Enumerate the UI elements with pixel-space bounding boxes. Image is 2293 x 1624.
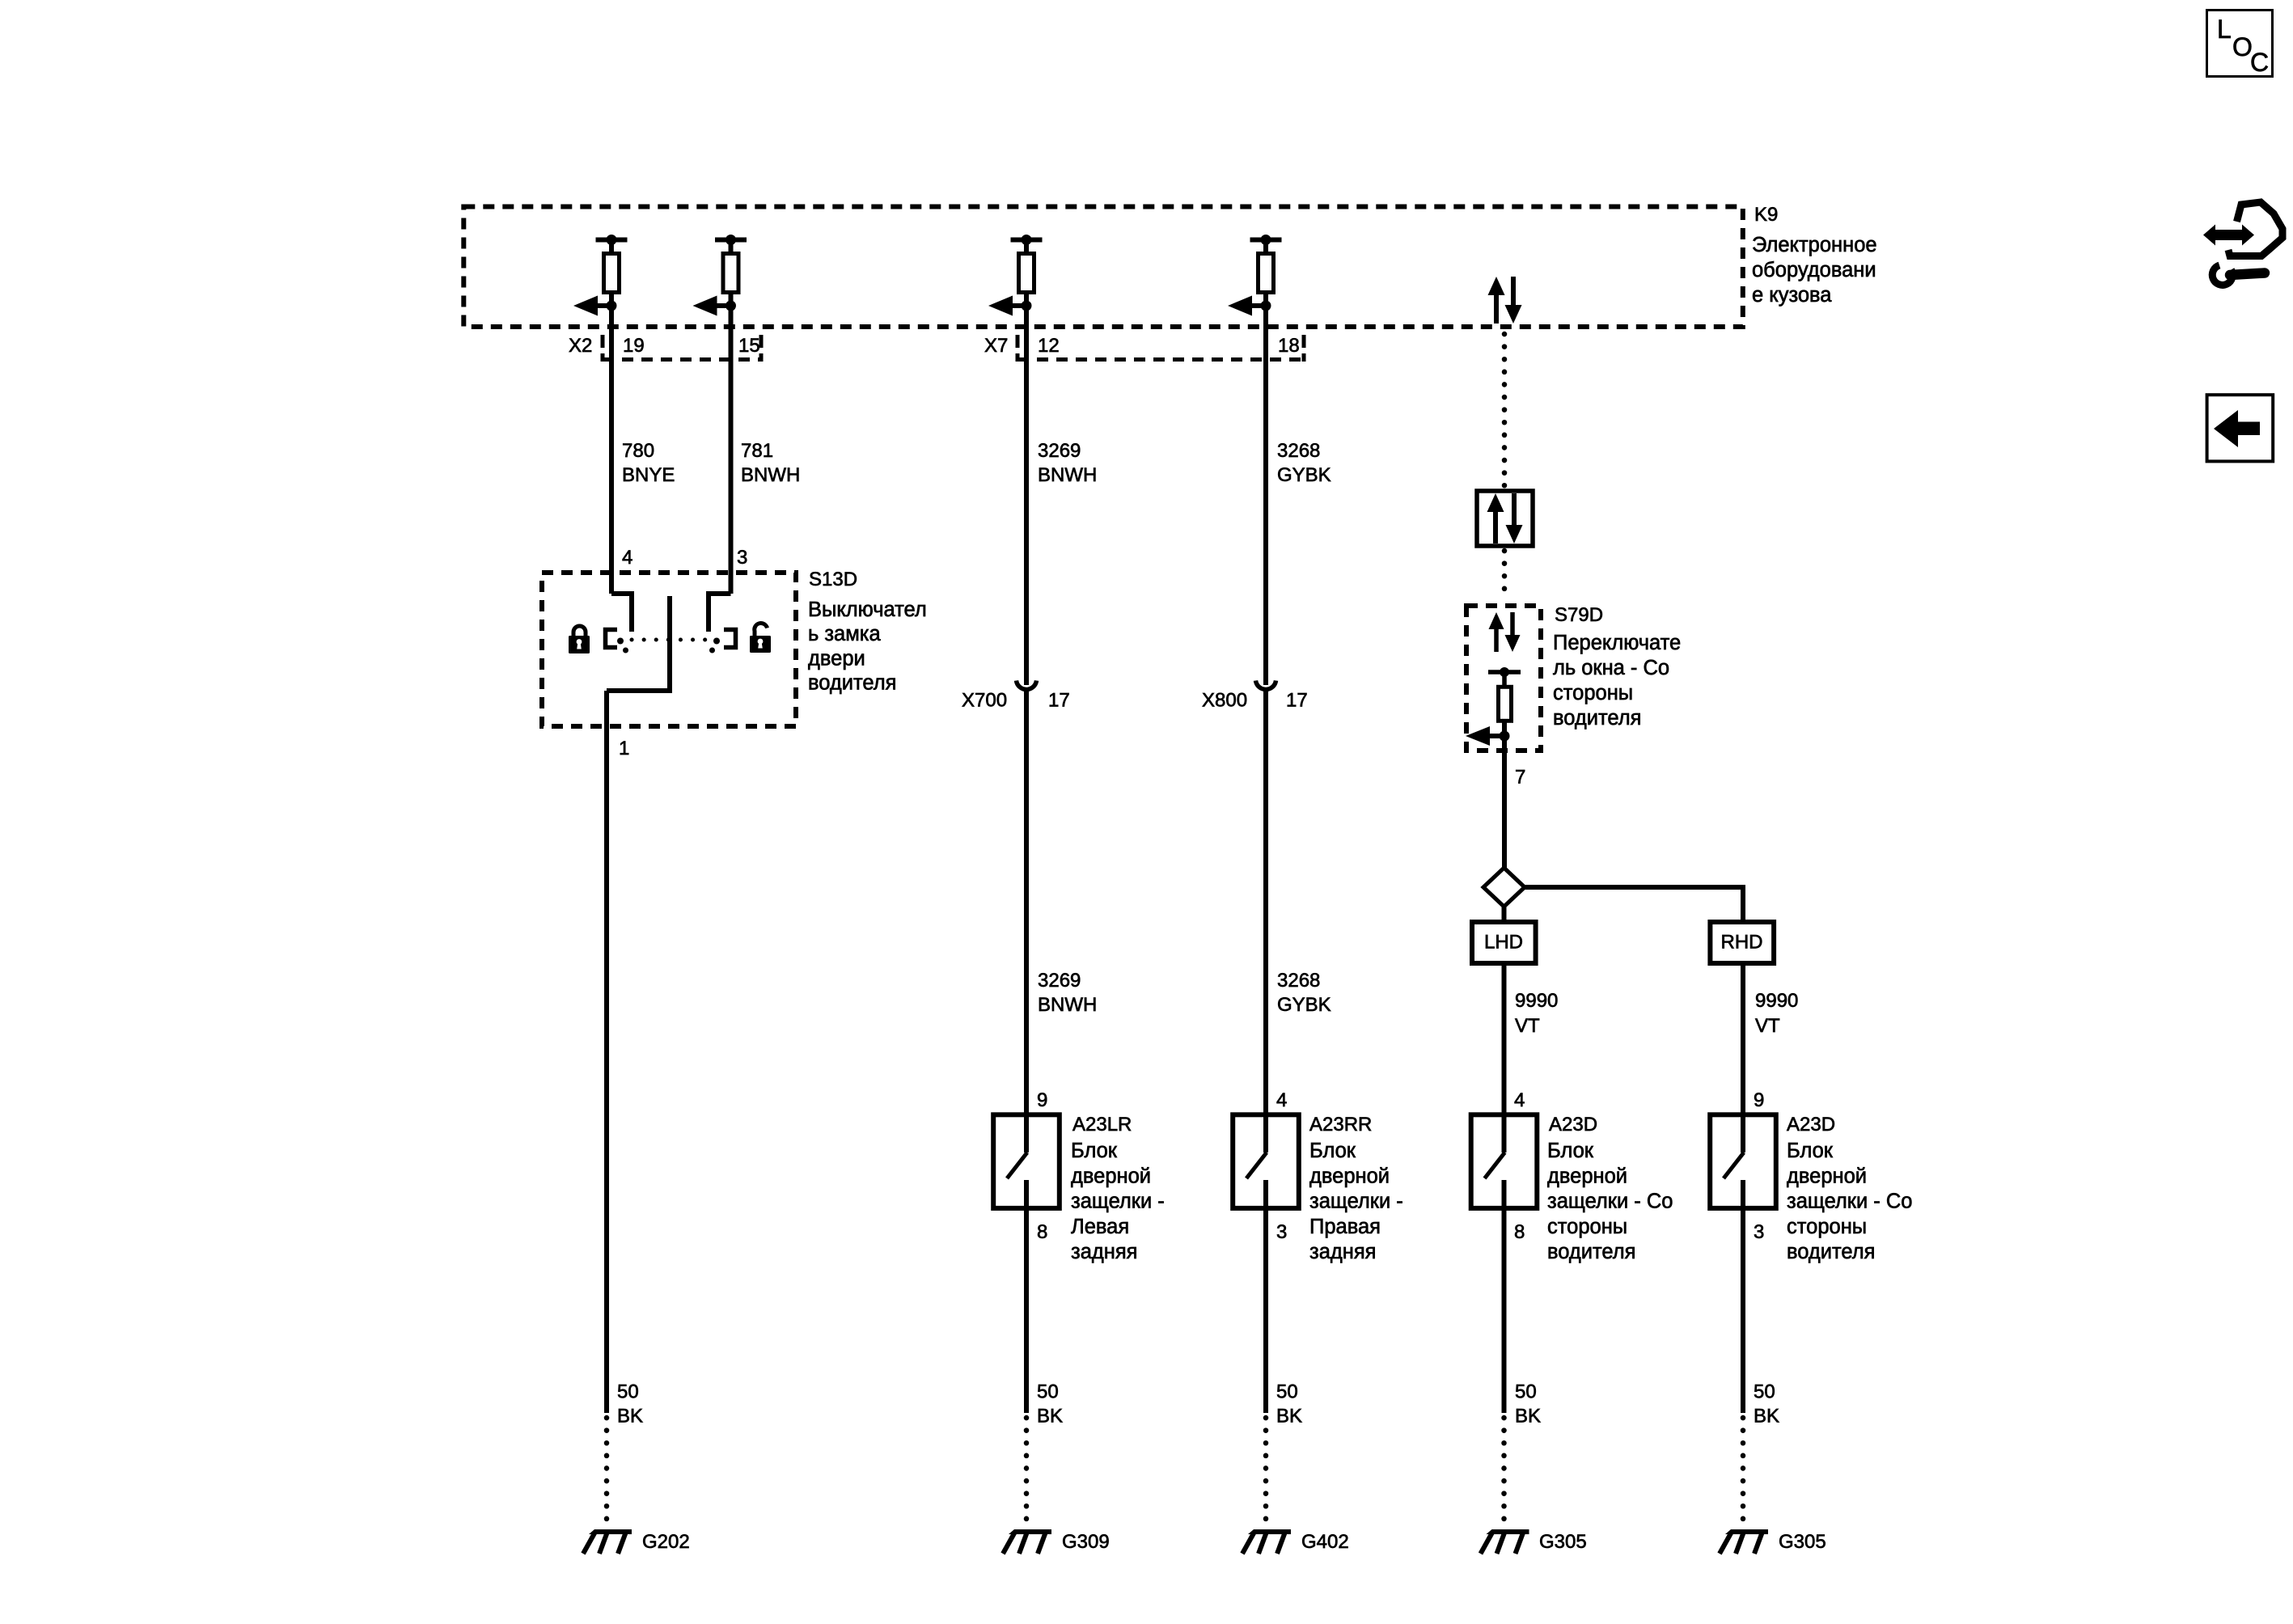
svg-text:оборудовани: оборудовани <box>1752 259 1876 281</box>
svg-text:7: 7 <box>1515 767 1525 789</box>
svg-text:BNWH: BNWH <box>1038 994 1097 1016</box>
svg-text:задняя: задняя <box>1071 1241 1137 1263</box>
svg-text:L: L <box>2217 15 2232 44</box>
svg-text:G305: G305 <box>1539 1531 1587 1553</box>
svg-text:3269: 3269 <box>1038 970 1081 992</box>
svg-text:GYBK: GYBK <box>1277 994 1331 1016</box>
svg-text:A23RR: A23RR <box>1309 1114 1372 1136</box>
svg-text:Блок: Блок <box>1787 1140 1834 1162</box>
svg-text:защелки -: защелки - <box>1071 1191 1165 1213</box>
svg-text:9: 9 <box>1754 1089 1764 1111</box>
svg-text:4: 4 <box>1514 1089 1525 1111</box>
svg-text:3: 3 <box>1276 1221 1287 1243</box>
svg-text:задняя: задняя <box>1309 1241 1376 1263</box>
svg-text:Блок: Блок <box>1547 1140 1594 1162</box>
svg-text:A23D: A23D <box>1549 1114 1597 1136</box>
svg-text:водителя: водителя <box>1547 1241 1635 1263</box>
svg-text:VT: VT <box>1515 1015 1540 1037</box>
svg-text:X7: X7 <box>984 335 1008 357</box>
svg-text:BK: BK <box>1276 1406 1302 1427</box>
svg-text:1: 1 <box>619 738 629 759</box>
svg-text:781: 781 <box>741 440 773 462</box>
svg-text:12: 12 <box>1038 335 1060 357</box>
svg-text:Блок: Блок <box>1309 1140 1356 1162</box>
svg-text:е кузова: е кузова <box>1752 284 1832 307</box>
svg-text:G402: G402 <box>1301 1531 1349 1553</box>
svg-text:ь замка: ь замка <box>808 623 881 645</box>
svg-text:50: 50 <box>1754 1381 1775 1403</box>
svg-text:K9: K9 <box>1754 204 1778 226</box>
svg-text:X2: X2 <box>569 335 592 357</box>
svg-text:VT: VT <box>1755 1015 1780 1037</box>
svg-text:9: 9 <box>1037 1089 1047 1111</box>
svg-text:RHD: RHD <box>1721 932 1763 954</box>
svg-text:15: 15 <box>738 335 760 357</box>
svg-text:дверной: дверной <box>1071 1165 1151 1187</box>
svg-text:S79D: S79D <box>1555 604 1603 626</box>
svg-text:50: 50 <box>1276 1381 1298 1403</box>
svg-text:LHD: LHD <box>1484 932 1523 954</box>
svg-text:X700: X700 <box>962 690 1007 712</box>
svg-text:19: 19 <box>623 335 645 357</box>
svg-text:стороны: стороны <box>1787 1216 1867 1238</box>
svg-text:4: 4 <box>622 547 632 569</box>
svg-text:8: 8 <box>1514 1221 1525 1243</box>
svg-text:дверной: дверной <box>1547 1165 1627 1187</box>
svg-text:3: 3 <box>737 547 747 569</box>
svg-text:G202: G202 <box>642 1531 690 1553</box>
svg-text:Правая: Правая <box>1309 1216 1381 1238</box>
svg-text:3269: 3269 <box>1038 440 1081 462</box>
svg-text:A23LR: A23LR <box>1072 1114 1132 1136</box>
svg-text:BK: BK <box>1754 1406 1779 1427</box>
svg-text:Переключате: Переключате <box>1553 632 1681 654</box>
svg-text:50: 50 <box>617 1381 639 1403</box>
svg-text:18: 18 <box>1278 335 1300 357</box>
svg-text:стороны: стороны <box>1553 682 1633 704</box>
svg-text:S13D: S13D <box>809 569 857 590</box>
svg-text:защелки - Со: защелки - Со <box>1787 1191 1912 1213</box>
svg-text:BK: BK <box>617 1406 643 1427</box>
svg-text:ль окна - Со: ль окна - Со <box>1553 657 1669 679</box>
svg-text:780: 780 <box>622 440 654 462</box>
svg-text:водителя: водителя <box>1553 707 1641 730</box>
svg-text:дверной: дверной <box>1787 1165 1867 1187</box>
svg-text:BNYE: BNYE <box>622 464 675 486</box>
svg-text:защелки - Со: защелки - Со <box>1547 1191 1673 1213</box>
svg-text:дверной: дверной <box>1309 1165 1390 1187</box>
svg-text:Электронное: Электронное <box>1752 234 1877 256</box>
svg-text:50: 50 <box>1515 1381 1537 1403</box>
svg-text:C: C <box>2250 48 2269 77</box>
svg-text:BK: BK <box>1515 1406 1541 1427</box>
svg-text:G305: G305 <box>1779 1531 1826 1553</box>
svg-text:BNWH: BNWH <box>1038 464 1097 486</box>
svg-text:G309: G309 <box>1062 1531 1110 1553</box>
svg-text:17: 17 <box>1048 690 1070 712</box>
svg-text:Выключател: Выключател <box>808 598 927 621</box>
svg-text:BK: BK <box>1037 1406 1063 1427</box>
svg-text:защелки -: защелки - <box>1309 1191 1403 1213</box>
svg-text:9990: 9990 <box>1755 990 1798 1012</box>
svg-text:A23D: A23D <box>1787 1114 1835 1136</box>
svg-text:водителя: водителя <box>1787 1241 1875 1263</box>
svg-text:X800: X800 <box>1202 690 1247 712</box>
svg-text:Левая: Левая <box>1071 1216 1129 1238</box>
svg-text:17: 17 <box>1286 690 1308 712</box>
svg-text:3: 3 <box>1754 1221 1764 1243</box>
svg-text:3268: 3268 <box>1277 970 1320 992</box>
svg-text:9990: 9990 <box>1515 990 1558 1012</box>
svg-text:BNWH: BNWH <box>741 464 800 486</box>
svg-text:стороны: стороны <box>1547 1216 1627 1238</box>
svg-text:Блок: Блок <box>1071 1140 1118 1162</box>
svg-text:50: 50 <box>1037 1381 1059 1403</box>
svg-text:водителя: водителя <box>808 672 896 695</box>
svg-text:8: 8 <box>1037 1221 1047 1243</box>
svg-text:GYBK: GYBK <box>1277 464 1331 486</box>
svg-text:3268: 3268 <box>1277 440 1320 462</box>
svg-text:4: 4 <box>1276 1089 1287 1111</box>
svg-text:двери: двери <box>808 647 865 670</box>
